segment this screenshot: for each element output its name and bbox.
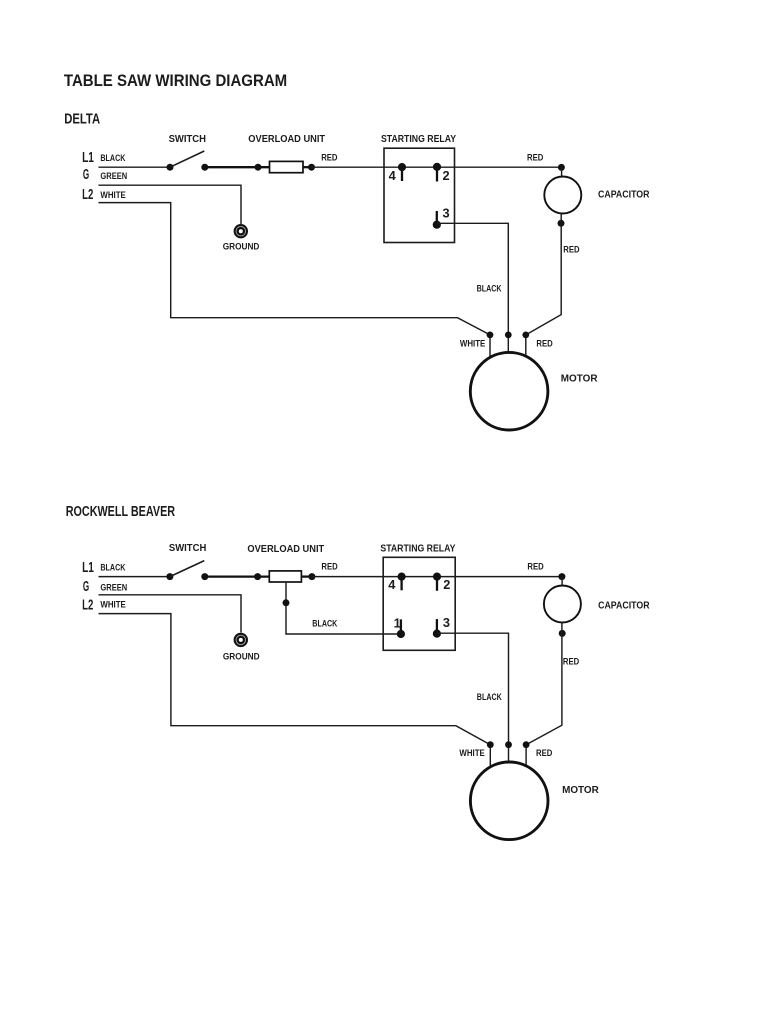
motor lead stems (2)	[490, 745, 526, 769]
wire overload out (heavy, 2)	[301, 575, 312, 577]
motor M2	[470, 762, 548, 840]
svg-text:BLACK: BLACK	[477, 692, 503, 702]
svg-text:DELTA: DELTA	[64, 112, 100, 128]
overload tap wire (black)	[286, 582, 401, 634]
wire pin3 to motor (black)	[437, 223, 509, 352]
relay pin 3 (2)	[433, 615, 450, 638]
svg-text:RED: RED	[563, 657, 579, 667]
wire white to motor (2)	[99, 614, 491, 745]
svg-text:ROCKWELL BEAVER: ROCKWELL BEAVER	[66, 504, 176, 520]
svg-text:CAPACITOR: CAPACITOR	[598, 600, 650, 611]
svg-text:GROUND: GROUND	[223, 652, 260, 662]
svg-text:STARTING RELAY: STARTING RELAY	[381, 134, 456, 145]
svg-text:WHITE: WHITE	[460, 339, 486, 349]
motor terminal dots (2)	[487, 741, 530, 748]
svg-text:OVERLOAD UNIT: OVERLOAD UNIT	[247, 544, 324, 555]
ground symbol (2)	[234, 633, 248, 647]
svg-text:RED: RED	[321, 562, 337, 572]
svg-text:BLACK: BLACK	[100, 563, 126, 573]
svg-text:GREEN: GREEN	[100, 171, 127, 181]
svg-text:SWITCH: SWITCH	[169, 543, 206, 554]
wire capacitor to motor (red, 2)	[526, 622, 562, 745]
svg-text:RED: RED	[536, 748, 552, 758]
junction dot (2)	[254, 573, 261, 580]
relay pin 4	[389, 163, 407, 183]
svg-text:L2: L2	[82, 598, 93, 614]
wire L1 to switch (2)	[99, 576, 170, 578]
svg-text:GROUND: GROUND	[223, 242, 260, 252]
wire switch to overload (heavy)	[205, 166, 270, 168]
svg-text:4: 4	[388, 577, 396, 592]
overload unit box (2)	[269, 571, 301, 582]
svg-text:BLACK: BLACK	[100, 153, 126, 163]
wire white to motor	[99, 203, 491, 335]
svg-text:2: 2	[443, 168, 450, 183]
switch S2	[166, 561, 208, 581]
svg-text:OVERLOAD UNIT: OVERLOAD UNIT	[248, 134, 325, 145]
wire overload to capacitor through relay	[312, 166, 562, 168]
wire green to ground	[99, 185, 242, 224]
relay pin 4 (2)	[388, 573, 406, 593]
motor terminal dots	[487, 332, 530, 339]
svg-text:L1: L1	[82, 150, 94, 166]
svg-text:L1: L1	[82, 560, 94, 576]
junction dot (2)	[308, 573, 315, 580]
svg-text:BLACK: BLACK	[312, 618, 338, 628]
wire overload out (heavy)	[303, 166, 312, 168]
wire green to ground (2)	[99, 595, 242, 633]
motor M1	[470, 352, 548, 430]
starting relay box (2)	[383, 557, 455, 650]
svg-text:RED: RED	[527, 152, 543, 162]
motor lead stems	[490, 335, 526, 359]
svg-text:G: G	[83, 579, 89, 595]
junction dot	[255, 164, 262, 171]
svg-text:WHITE: WHITE	[100, 190, 126, 200]
svg-text:SWITCH: SWITCH	[169, 134, 206, 145]
tap junction dot	[283, 599, 290, 606]
svg-text:RED: RED	[536, 339, 552, 349]
overload unit box	[270, 161, 304, 172]
svg-text:BLACK: BLACK	[477, 284, 503, 294]
svg-text:RED: RED	[321, 153, 337, 163]
svg-text:L2: L2	[82, 187, 93, 203]
wire overload to capacitor through relay (2)	[312, 576, 562, 578]
junction dot	[308, 164, 315, 171]
svg-text:STARTING RELAY: STARTING RELAY	[380, 544, 455, 555]
starting relay box	[384, 148, 455, 242]
relay pin 3	[433, 206, 450, 229]
wire pin3 to motor (black, 2)	[437, 633, 509, 763]
svg-text:TABLE SAW WIRING DIAGRAM: TABLE SAW WIRING DIAGRAM	[64, 72, 287, 90]
svg-text:4: 4	[389, 168, 397, 183]
wire switch to overload (heavy, 2)	[205, 575, 269, 577]
switch S1	[167, 151, 209, 171]
relay pin 2 (2)	[433, 573, 451, 593]
ground symbol	[234, 224, 248, 238]
relay pin 2	[433, 163, 450, 183]
capacitor C1	[544, 164, 581, 227]
svg-text:RED: RED	[527, 562, 543, 572]
relay pin 1	[394, 616, 405, 638]
svg-text:WHITE: WHITE	[459, 748, 485, 758]
svg-text:RED: RED	[563, 245, 579, 255]
svg-text:MOTOR: MOTOR	[561, 374, 598, 385]
svg-text:1: 1	[394, 616, 401, 631]
capacitor C2	[544, 573, 581, 637]
svg-text:3: 3	[443, 615, 450, 630]
wire L1 to switch	[99, 166, 171, 168]
svg-text:GREEN: GREEN	[100, 582, 127, 592]
svg-text:2: 2	[443, 577, 450, 592]
svg-text:WHITE: WHITE	[100, 600, 126, 610]
wire capacitor to motor (red)	[526, 213, 561, 335]
svg-text:G: G	[83, 167, 89, 183]
svg-text:CAPACITOR: CAPACITOR	[598, 189, 650, 200]
svg-text:3: 3	[443, 206, 450, 221]
svg-text:MOTOR: MOTOR	[562, 785, 599, 796]
